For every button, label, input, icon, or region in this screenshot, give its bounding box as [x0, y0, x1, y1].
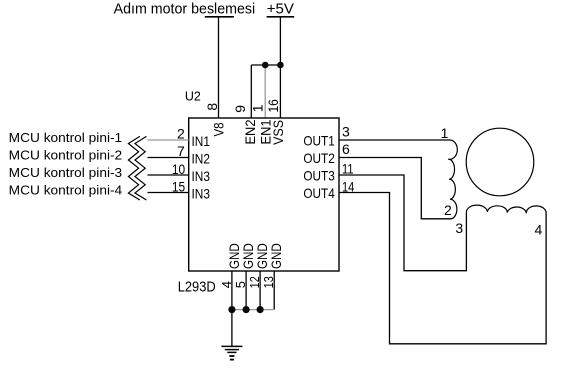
power terminal bar: motor supply [205, 16, 234, 18]
wire: coil terminal 2 to OUT2 [339, 158, 452, 219]
wire: U2 pin 1 (EN1) vertical gray [264, 65, 266, 118]
wire: MCU pin-4 to U2 IN3 [148, 192, 189, 194]
wire: OUT1 to motor coil terminal 1 [339, 139, 451, 141]
power terminal bar: +5V [267, 16, 295, 18]
junction dot: pin 5 ground [243, 306, 250, 313]
svg-text:3: 3 [455, 220, 463, 236]
wire: MCU pin-1 to U2 IN1 (gray) [148, 139, 189, 141]
junction dot: pin 4 ground [228, 306, 235, 313]
motor winding L2 (coil 3-4) [466, 205, 546, 213]
motor winding L1 (coil 1-2) [448, 140, 457, 219]
svg-text:1: 1 [441, 125, 449, 141]
wire: U2 pin 12 to ground node [259, 271, 261, 310]
svg-text:4: 4 [535, 222, 543, 238]
junction dot: VSS branch [277, 62, 284, 69]
svg-text:15: 15 [172, 178, 185, 194]
svg-text:MCU kontrol pini-4: MCU kontrol pini-4 [9, 183, 123, 198]
svg-text:MCU kontrol pini-3: MCU kontrol pini-3 [9, 165, 123, 180]
svg-text:IN3: IN3 [192, 168, 211, 184]
svg-text:6: 6 [342, 141, 350, 157]
svg-text:MCU kontrol pini-2: MCU kontrol pini-2 [9, 148, 123, 163]
svg-text:11: 11 [342, 160, 354, 176]
junction dot: pin 12 ground [257, 306, 264, 313]
svg-text:1: 1 [249, 104, 265, 112]
motor body circle [466, 128, 534, 196]
svg-text:V8: V8 [210, 122, 226, 136]
svg-text:IN2: IN2 [192, 151, 211, 167]
svg-text:OUT1: OUT1 [303, 132, 335, 148]
svg-text:Adım motor beslemesi: Adım motor beslemesi [114, 0, 256, 17]
svg-text:OUT4: OUT4 [303, 185, 335, 201]
wire: ground node down to ground symbol [231, 310, 233, 347]
wire: U2 pin 4 to ground node [231, 271, 233, 310]
wire: ground bus horizontal (gray) [232, 309, 274, 311]
svg-text:8: 8 [204, 103, 220, 111]
svg-text:7: 7 [177, 143, 185, 159]
svg-text:IN3: IN3 [192, 186, 211, 202]
svg-text:2: 2 [177, 126, 185, 142]
svg-text:L293D: L293D [178, 280, 216, 296]
bus entry zigzag symbol [128, 136, 146, 200]
svg-text:9: 9 [232, 105, 248, 113]
wire: motor supply to U2 pin 8 [218, 17, 220, 118]
svg-text:16: 16 [265, 99, 281, 112]
wire: U2 pin 13 to ground node [273, 271, 275, 310]
svg-text:IN1: IN1 [192, 133, 211, 149]
svg-text:MCU kontrol pini-1: MCU kontrol pini-1 [9, 130, 123, 145]
wire: U2 pin 5 to ground node [245, 271, 247, 310]
svg-text:U2: U2 [185, 89, 201, 104]
wire: U2 pin 9 (EN2) vertical [250, 65, 252, 118]
svg-text:2: 2 [444, 202, 452, 218]
svg-text:EN2: EN2 [242, 119, 258, 144]
wire: +5V vertical to U2 pin 16 (VSS) [279, 17, 281, 118]
svg-text:OUT3: OUT3 [303, 167, 335, 183]
IC U2 L293D body [189, 118, 339, 271]
svg-text:OUT2: OUT2 [303, 150, 335, 166]
svg-text:+5V: +5V [267, 0, 294, 17]
svg-text:10: 10 [172, 161, 185, 177]
wire: MCU pin-3 to U2 IN3 [148, 174, 189, 176]
ground symbol [221, 346, 242, 359]
svg-text:3: 3 [342, 124, 350, 140]
wire: +5V branch horizontal to EN2 [251, 64, 280, 66]
svg-text:VSS: VSS [270, 120, 286, 145]
wire: coil terminal 4 to OUT4 [339, 193, 546, 344]
svg-text:GND: GND [268, 243, 284, 269]
wire: OUT3 to motor coil terminal 3 [339, 175, 466, 271]
junction dot: EN1 branch [262, 62, 269, 69]
wire: MCU pin-2 to U2 IN2 [148, 157, 189, 159]
